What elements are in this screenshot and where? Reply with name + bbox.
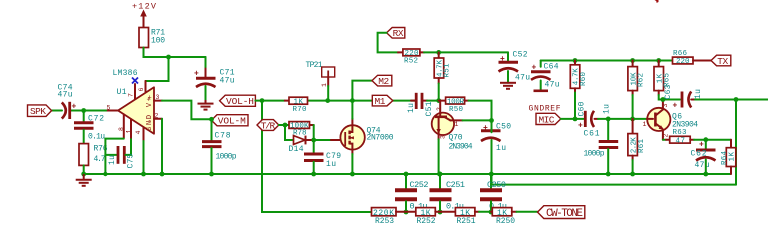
global label TX (711, 55, 731, 67)
resistor R65 (654, 58, 680, 99)
svg-text:CW-TONE: CW-TONE (546, 208, 583, 220)
svg-text:47u: 47u (515, 74, 530, 83)
capacitor C60 (578, 101, 612, 130)
node junction rail (166, 55, 171, 60)
test point TP21 (306, 61, 335, 101)
svg-text:4.7: 4.7 (94, 155, 106, 164)
resistor R78 (289, 122, 314, 140)
svg-text:1: 1 (643, 121, 647, 128)
resistor R62 (628, 58, 646, 119)
svg-text:2N3904: 2N3904 (449, 143, 473, 152)
Q70 collector wire (463, 119, 492, 121)
transistor Q6 2N3904 (643, 100, 699, 140)
wire R250 to CW-TONE (517, 211, 538, 213)
wire R63 to R64 (694, 139, 731, 141)
svg-text:LM386: LM386 (113, 69, 138, 78)
resistor R250 (491, 208, 517, 226)
wire pin5 to C74 (70, 110, 106, 112)
op-amp pin8 stub and wire (123, 114, 125, 137)
wire RX to R52 (378, 33, 398, 53)
global label RX (387, 28, 405, 40)
capacitor C61 (584, 119, 619, 177)
capacitor C62 (691, 140, 716, 177)
power symbol GNDREF (529, 91, 561, 114)
svg-text:C50: C50 (496, 123, 511, 132)
capacitor C52 (499, 51, 531, 83)
svg-text:C63: C63 (664, 84, 673, 99)
svg-text:VOL-H: VOL-H (226, 96, 254, 107)
op-amp U1 pin7 stub (134, 84, 136, 100)
MIC net continues to Q6 base (598, 118, 647, 120)
svg-text:C61: C61 (584, 130, 600, 139)
svg-text:+: + (699, 141, 704, 150)
svg-text:+: + (72, 103, 77, 112)
svg-text:3: 3 (440, 135, 447, 139)
op-amp pin5 output stub (106, 110, 118, 112)
capacitor C74 (58, 84, 77, 120)
svg-text:+: + (578, 122, 583, 131)
svg-text:C72: C72 (88, 115, 104, 124)
svg-text:+: + (673, 102, 678, 111)
global label SPK (28, 105, 52, 117)
global label T/R (257, 120, 279, 132)
svg-text:R50: R50 (449, 106, 463, 114)
rail C64 to R66 (541, 60, 673, 62)
wire pin6 V+ path (146, 57, 169, 81)
svg-text:1000p: 1000p (216, 152, 237, 161)
svg-text:220: 220 (676, 58, 690, 66)
capacitor C251 (430, 172, 466, 215)
svg-text:1u: 1u (326, 160, 336, 169)
svg-text:C252: C252 (410, 180, 429, 190)
svg-text:C51: C51 (425, 101, 434, 116)
svg-text:U1: U1 (117, 88, 127, 97)
svg-text:TP21: TP21 (306, 61, 323, 70)
svg-text:1000p: 1000p (584, 150, 605, 159)
op-amp U1 pin6 stub (145, 81, 147, 92)
resistor R253 (372, 208, 407, 226)
svg-text:TX: TX (717, 56, 728, 67)
transistor Q74 2N7000 (340, 125, 393, 149)
svg-text:C250: C250 (487, 180, 506, 190)
op-amp pin2 stub and wire (154, 118, 162, 120)
resistor R252 (406, 208, 440, 226)
svg-text:+12V: +12V (132, 2, 157, 12)
global label M1 (372, 95, 393, 107)
svg-text:C251: C251 (446, 180, 465, 190)
svg-text:6: 6 (138, 88, 145, 92)
svg-text:C75: C75 (127, 153, 136, 168)
diode D14 (289, 136, 314, 154)
wire R52 to C52 rail (424, 51, 508, 53)
svg-text:R52: R52 (404, 57, 418, 65)
svg-text:SPK: SPK (30, 106, 46, 117)
wire to Q74 gate (314, 139, 331, 141)
wire R71 to rail (144, 48, 206, 58)
svg-text:7: 7 (128, 93, 135, 97)
svg-text:47u: 47u (58, 91, 73, 100)
capacitor C51 (407, 93, 439, 117)
global label MIC (536, 113, 561, 125)
svg-text:47: 47 (676, 137, 686, 145)
ground for C71 (198, 100, 214, 110)
wire node down to D14 (285, 125, 293, 140)
svg-text:R51: R51 (444, 63, 452, 77)
svg-text:MIC: MIC (539, 114, 555, 125)
svg-text:R253: R253 (375, 217, 394, 226)
global label VOL-M (211, 115, 248, 127)
svg-text:R251: R251 (457, 217, 476, 226)
svg-text:C64: C64 (544, 63, 559, 72)
svg-text:47u: 47u (695, 161, 710, 170)
wire VOL-H to net (255, 100, 284, 102)
svg-text:5: 5 (107, 105, 111, 112)
wire C50 bottom through bus down to audio-out run (492, 140, 737, 185)
svg-text:47u: 47u (545, 81, 560, 90)
resistor R71 (139, 28, 165, 48)
op-amp pin3 stub and net to VOL-M (154, 100, 162, 102)
svg-text:1u: 1u (694, 89, 703, 99)
svg-text:1: 1 (321, 83, 328, 87)
ground symbol (76, 174, 92, 186)
capacitor C50 (481, 123, 511, 153)
resistor R64 (721, 140, 737, 174)
svg-text:C62: C62 (691, 150, 707, 159)
svg-text:R252: R252 (417, 217, 436, 226)
net R70/M1 horizontal (308, 100, 415, 102)
svg-text:2: 2 (436, 107, 443, 111)
svg-text:100: 100 (151, 37, 165, 46)
no-connect X pin7 (132, 78, 138, 84)
wire SPK to C74 (52, 110, 63, 112)
global label VOL-H (220, 95, 256, 107)
svg-text:47u: 47u (220, 77, 235, 86)
transistor Q70 2N3904 (432, 101, 473, 152)
svg-text:T/R: T/R (261, 120, 276, 131)
svg-text:8: 8 (118, 127, 125, 131)
svg-text:Q70: Q70 (449, 134, 463, 143)
svg-text:1u: 1u (108, 155, 117, 165)
resistor R61 (628, 119, 646, 177)
wire VOL-H down to bottom rail (262, 101, 372, 212)
svg-text:R64: R64 (721, 151, 729, 165)
Q70 emitter wire down (438, 139, 440, 174)
svg-text:R70: R70 (293, 106, 307, 114)
capacitor C78 (202, 119, 237, 176)
svg-text:3: 3 (156, 94, 160, 101)
svg-text:3: 3 (662, 104, 669, 108)
capacitor C64 (531, 61, 560, 90)
svg-text:-: - (148, 118, 152, 126)
svg-text:1u: 1u (603, 104, 612, 114)
artifact top edge (655, 0, 659, 3)
svg-text:0.1u: 0.1u (88, 133, 105, 142)
svg-text:C60: C60 (578, 101, 587, 116)
capacitor C79 (304, 140, 341, 176)
capacitor C250 (480, 174, 507, 214)
svg-text:1: 1 (126, 130, 133, 134)
wire output down to audio run (735, 100, 737, 185)
svg-text:M2: M2 (378, 76, 389, 87)
ground bus (84, 173, 731, 175)
svg-text:D14: D14 (289, 145, 304, 154)
svg-text:1K: 1K (729, 152, 737, 162)
Q74 source wire down (351, 149, 353, 154)
resistor R70 (285, 97, 308, 114)
capacitor C71 (194, 57, 235, 100)
Q6 emitter to R63 (663, 139, 666, 141)
resistor R66 (673, 50, 712, 66)
svg-text:2: 2 (155, 113, 159, 120)
resistor R52 (398, 49, 424, 65)
op-amp pin4 stub and wire (143, 128, 145, 142)
resistor R51 (434, 52, 451, 100)
resistor R251 (440, 208, 491, 226)
svg-text:+: + (148, 95, 152, 103)
global label CW-TONE (538, 206, 585, 220)
svg-text:R250: R250 (496, 217, 515, 226)
capacitor C75 (105, 138, 135, 169)
resistor R60 (570, 58, 588, 121)
svg-text:2: 2 (663, 134, 670, 138)
op-amp pin1 stub (130, 119, 132, 137)
resistor R50 (439, 97, 469, 114)
Q74 drain wire up (351, 119, 353, 126)
svg-text:C52: C52 (513, 51, 528, 60)
svg-text:C78: C78 (215, 131, 231, 140)
wire R50 right down to C50 (469, 101, 492, 124)
svg-text:2N7000: 2N7000 (367, 134, 394, 143)
svg-text:1: 1 (455, 121, 459, 128)
wire T/R to node (279, 124, 289, 126)
svg-text:GNDREF: GNDREF (529, 105, 561, 114)
svg-text:M1: M1 (375, 96, 386, 107)
global label M2 (372, 75, 392, 87)
power +12V (132, 2, 157, 28)
MIC net wire (561, 118, 584, 120)
svg-text:4: 4 (135, 131, 142, 135)
svg-text:R60: R60 (580, 72, 588, 86)
svg-text:1u: 1u (496, 144, 506, 153)
svg-text:1u: 1u (407, 103, 416, 113)
svg-text:R62: R62 (638, 73, 646, 87)
svg-text:VOL-M: VOL-M (218, 116, 246, 127)
capacitor C63 (664, 84, 703, 110)
output net to right edge (695, 99, 768, 101)
capacitor C72 (74, 111, 105, 144)
svg-text:R61: R61 (638, 139, 646, 153)
node junction C72 tap (81, 108, 86, 113)
resistor R63 (666, 129, 694, 145)
ground for C52 (500, 83, 516, 89)
op-amp U1 LM386 (113, 69, 155, 134)
svg-text:RX: RX (393, 28, 404, 39)
resistor R76 (79, 144, 108, 174)
capacitor C252 (395, 172, 429, 215)
